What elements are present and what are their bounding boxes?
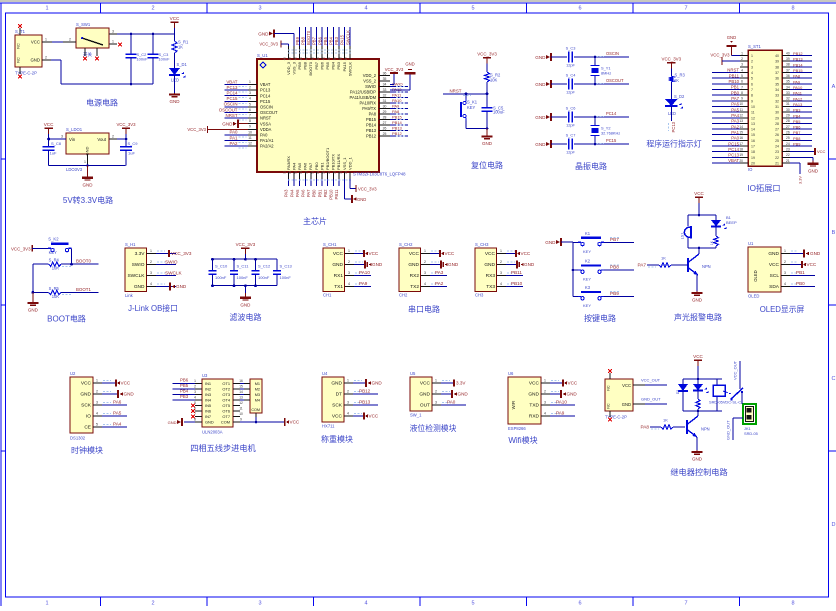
svg-text:SCL: SCL bbox=[770, 273, 780, 279]
svg-text:15: 15 bbox=[294, 170, 298, 174]
svg-text:3: 3 bbox=[249, 91, 251, 95]
svg-text:PA12/USB/DP: PA12/USB/DP bbox=[350, 90, 376, 95]
svg-text:1: 1 bbox=[84, 160, 86, 164]
svg-text:32: 32 bbox=[383, 93, 387, 97]
svg-text:S_CH2: S_CH2 bbox=[399, 242, 413, 247]
svg-text:S_LDO1: S_LDO1 bbox=[66, 127, 83, 132]
svg-text:27: 27 bbox=[786, 125, 790, 129]
svg-text:15: 15 bbox=[739, 131, 743, 135]
svg-text:程序运行指示灯: 程序运行指示灯 bbox=[646, 139, 701, 149]
svg-text:COM: COM bbox=[221, 420, 230, 425]
svg-text:PB6: PB6 bbox=[319, 61, 324, 69]
svg-text:S_C4: S_C4 bbox=[566, 73, 577, 78]
svg-text:2: 2 bbox=[435, 390, 437, 394]
svg-text:GND: GND bbox=[692, 298, 703, 303]
svg-text:33: 33 bbox=[786, 91, 790, 95]
svg-text:PB11/RX: PB11/RX bbox=[336, 154, 341, 170]
svg-text:BOOT0: BOOT0 bbox=[308, 61, 313, 75]
svg-text:PB4: PB4 bbox=[793, 113, 801, 118]
svg-text:PC15: PC15 bbox=[606, 138, 617, 143]
svg-text:3: 3 bbox=[741, 63, 743, 67]
svg-text:VCC_3V3: VCC_3V3 bbox=[171, 251, 192, 256]
svg-text:3: 3 bbox=[258, 601, 261, 607]
svg-text:PA0: PA0 bbox=[230, 130, 239, 135]
svg-text:36: 36 bbox=[775, 77, 779, 81]
svg-text:OSCOUT: OSCOUT bbox=[219, 107, 238, 112]
svg-text:PA6: PA6 bbox=[113, 400, 122, 405]
svg-text:PA13: PA13 bbox=[793, 102, 802, 107]
svg-text:PA6: PA6 bbox=[303, 162, 308, 170]
svg-text:PC14: PC14 bbox=[227, 91, 239, 96]
svg-text:PB10/TX: PB10/TX bbox=[331, 154, 336, 170]
svg-text:VCC: VCC bbox=[529, 381, 540, 387]
svg-text:PA11: PA11 bbox=[392, 93, 402, 98]
svg-text:GND: GND bbox=[768, 251, 779, 257]
svg-text:100nF: 100nF bbox=[258, 275, 270, 280]
svg-text:GND: GND bbox=[622, 402, 631, 407]
svg-text:GND: GND bbox=[205, 420, 214, 425]
svg-text:PB6: PB6 bbox=[180, 378, 189, 383]
svg-text:PA0: PA0 bbox=[731, 136, 739, 141]
svg-text:VCC_3V3: VCC_3V3 bbox=[187, 127, 206, 132]
svg-text:2: 2 bbox=[347, 390, 349, 394]
svg-text:OSCOUT: OSCOUT bbox=[606, 78, 624, 83]
svg-text:PA4: PA4 bbox=[113, 422, 122, 427]
svg-text:S_C6: S_C6 bbox=[566, 106, 576, 111]
svg-text:PA10: PA10 bbox=[793, 85, 803, 90]
svg-text:17: 17 bbox=[751, 145, 755, 149]
svg-text:U4: U4 bbox=[322, 371, 328, 376]
svg-text:GND: GND bbox=[484, 262, 495, 268]
svg-text:37: 37 bbox=[786, 68, 790, 72]
svg-text:8: 8 bbox=[194, 418, 196, 422]
svg-text:ESP8266: ESP8266 bbox=[508, 426, 526, 431]
svg-text:GND: GND bbox=[134, 284, 145, 290]
svg-text:S_C13: S_C13 bbox=[280, 263, 293, 268]
svg-text:PA8: PA8 bbox=[392, 109, 400, 114]
svg-text:8: 8 bbox=[791, 6, 794, 12]
svg-text:26: 26 bbox=[786, 131, 790, 135]
svg-text:GND: GND bbox=[405, 62, 414, 67]
svg-text:OLED: OLED bbox=[748, 294, 759, 299]
svg-text:VSS_1: VSS_1 bbox=[342, 157, 347, 170]
svg-text:48: 48 bbox=[282, 57, 286, 61]
svg-text:NRST: NRST bbox=[727, 68, 739, 73]
svg-text:30: 30 bbox=[383, 104, 387, 108]
svg-text:PB3: PB3 bbox=[793, 108, 800, 113]
svg-text:PC15: PC15 bbox=[260, 99, 271, 104]
svg-text:2: 2 bbox=[69, 37, 71, 41]
svg-text:PA4: PA4 bbox=[731, 113, 739, 118]
svg-text:KEY: KEY bbox=[49, 250, 57, 255]
svg-text:IN7: IN7 bbox=[205, 414, 211, 419]
svg-text:VSSA: VSSA bbox=[260, 121, 271, 126]
svg-text:LED: LED bbox=[171, 78, 179, 83]
svg-text:PA2/A2: PA2/A2 bbox=[260, 144, 274, 149]
svg-text:20: 20 bbox=[322, 170, 326, 174]
svg-text:GND: GND bbox=[170, 99, 181, 104]
svg-text:PA11: PA11 bbox=[793, 91, 802, 96]
svg-text:PB5: PB5 bbox=[180, 383, 189, 388]
svg-text:25: 25 bbox=[786, 136, 790, 140]
svg-text:100nF: 100nF bbox=[159, 57, 171, 62]
svg-text:3: 3 bbox=[61, 134, 63, 138]
svg-text:4: 4 bbox=[348, 282, 350, 286]
svg-text:43: 43 bbox=[310, 57, 314, 61]
svg-text:PB14: PB14 bbox=[366, 123, 377, 128]
svg-text:S_C8: S_C8 bbox=[51, 141, 62, 146]
svg-text:PB5: PB5 bbox=[323, 36, 328, 45]
svg-text:16: 16 bbox=[739, 136, 743, 140]
svg-text:4: 4 bbox=[347, 412, 349, 416]
svg-text:VCC_OUT: VCC_OUT bbox=[733, 360, 738, 380]
svg-text:4: 4 bbox=[364, 601, 367, 607]
svg-text:VCC_3V3: VCC_3V3 bbox=[662, 57, 682, 62]
svg-text:12pF: 12pF bbox=[566, 63, 575, 68]
svg-text:继电器控制电路: 继电器控制电路 bbox=[670, 467, 727, 477]
svg-text:10K: 10K bbox=[52, 266, 60, 271]
svg-text:100nF: 100nF bbox=[137, 57, 149, 62]
svg-text:3: 3 bbox=[435, 401, 437, 405]
svg-text:KEY: KEY bbox=[467, 105, 475, 110]
svg-text:100nF: 100nF bbox=[237, 275, 249, 280]
svg-text:16: 16 bbox=[299, 170, 303, 174]
svg-text:24: 24 bbox=[786, 142, 790, 146]
svg-text:5: 5 bbox=[751, 77, 753, 81]
svg-text:PB7: PB7 bbox=[314, 61, 319, 69]
svg-text:VCC: VCC bbox=[521, 251, 531, 256]
svg-text:PB0: PB0 bbox=[314, 162, 319, 170]
svg-text:GND: GND bbox=[419, 392, 430, 398]
svg-text:28: 28 bbox=[383, 115, 387, 119]
svg-text:PB1: PB1 bbox=[317, 189, 322, 198]
svg-text:5: 5 bbox=[249, 102, 251, 106]
svg-text:100nF: 100nF bbox=[215, 275, 227, 280]
svg-text:时钟模块: 时钟模块 bbox=[71, 445, 103, 455]
svg-text:GND_OUT: GND_OUT bbox=[641, 397, 661, 402]
svg-text:C: C bbox=[832, 376, 836, 382]
svg-text:LED: LED bbox=[668, 111, 676, 116]
svg-text:28: 28 bbox=[775, 122, 779, 126]
svg-text:32: 32 bbox=[786, 97, 790, 101]
svg-text:1: 1 bbox=[249, 80, 251, 84]
svg-text:5: 5 bbox=[741, 74, 743, 78]
svg-text:VCC: VCC bbox=[568, 381, 578, 386]
svg-text:PC13: PC13 bbox=[260, 88, 271, 93]
svg-text:PA15: PA15 bbox=[340, 34, 345, 45]
svg-text:42: 42 bbox=[316, 57, 320, 61]
svg-text:25: 25 bbox=[383, 132, 387, 136]
svg-text:NRST: NRST bbox=[450, 88, 462, 93]
svg-text:Wifi模块: Wifi模块 bbox=[508, 435, 537, 445]
svg-text:B: B bbox=[832, 230, 836, 236]
svg-text:5: 5 bbox=[471, 6, 474, 12]
svg-text:32: 32 bbox=[775, 99, 779, 103]
svg-text:PB13: PB13 bbox=[366, 128, 377, 133]
svg-text:PB1: PB1 bbox=[731, 85, 740, 90]
svg-text:PA9: PA9 bbox=[793, 79, 800, 84]
svg-text:31: 31 bbox=[775, 105, 779, 109]
svg-text:M2: M2 bbox=[255, 388, 260, 392]
svg-text:11: 11 bbox=[248, 136, 252, 140]
svg-text:10: 10 bbox=[248, 130, 252, 134]
svg-text:S_CH1: S_CH1 bbox=[323, 242, 337, 247]
svg-text:TX1: TX1 bbox=[334, 284, 343, 290]
svg-text:S_R3: S_R3 bbox=[675, 72, 686, 77]
svg-text:21: 21 bbox=[786, 159, 790, 163]
svg-text:PA0: PA0 bbox=[447, 400, 456, 405]
svg-text:PA0: PA0 bbox=[260, 133, 268, 138]
svg-text:NRST: NRST bbox=[226, 113, 238, 118]
svg-text:40: 40 bbox=[327, 57, 331, 61]
svg-text:PA6: PA6 bbox=[731, 102, 739, 107]
svg-text:2: 2 bbox=[784, 260, 786, 264]
svg-text:23: 23 bbox=[786, 148, 790, 152]
svg-text:GND: GND bbox=[448, 262, 459, 267]
svg-text:ULN2003A: ULN2003A bbox=[202, 430, 223, 435]
svg-text:PB0: PB0 bbox=[312, 189, 317, 198]
svg-text:5V转3.3V电路: 5V转3.3V电路 bbox=[63, 195, 113, 205]
svg-text:3: 3 bbox=[751, 65, 753, 69]
svg-text:4: 4 bbox=[741, 68, 743, 72]
svg-text:40: 40 bbox=[775, 54, 779, 58]
svg-text:1K: 1K bbox=[661, 256, 666, 261]
svg-text:1uF: 1uF bbox=[128, 151, 135, 156]
svg-text:21: 21 bbox=[327, 170, 331, 174]
svg-text:14: 14 bbox=[239, 390, 243, 394]
svg-text:14: 14 bbox=[739, 125, 743, 129]
svg-text:KEY: KEY bbox=[583, 303, 591, 308]
svg-text:PA7: PA7 bbox=[306, 189, 311, 197]
svg-text:3: 3 bbox=[544, 401, 546, 405]
svg-text:2: 2 bbox=[45, 55, 47, 59]
svg-text:GND: GND bbox=[567, 392, 578, 397]
svg-text:19: 19 bbox=[751, 156, 755, 160]
svg-text:OLED显示屏: OLED显示屏 bbox=[760, 305, 805, 314]
svg-text:3.3V: 3.3V bbox=[456, 381, 466, 386]
svg-text:S_C9: S_C9 bbox=[128, 141, 139, 146]
svg-text:U3: U3 bbox=[202, 373, 208, 378]
svg-text:PB7: PB7 bbox=[312, 36, 317, 45]
svg-text:PB8: PB8 bbox=[301, 36, 306, 45]
svg-text:S_C7: S_C7 bbox=[566, 133, 576, 138]
svg-text:1K: 1K bbox=[178, 45, 183, 50]
svg-text:PB13: PB13 bbox=[793, 57, 803, 62]
svg-text:Vout: Vout bbox=[97, 137, 106, 142]
svg-text:GND: GND bbox=[524, 262, 535, 267]
svg-text:PB2: PB2 bbox=[323, 189, 328, 198]
svg-text:VCC_3V3: VCC_3V3 bbox=[710, 53, 730, 58]
svg-text:33: 33 bbox=[775, 94, 779, 98]
svg-text:SCK: SCK bbox=[332, 403, 343, 409]
svg-text:SRD-05VDC-SL-C: SRD-05VDC-SL-C bbox=[709, 400, 741, 405]
svg-text:8MHz: 8MHz bbox=[601, 71, 611, 76]
svg-text:10: 10 bbox=[239, 412, 243, 416]
svg-text:VCC: VCC bbox=[332, 414, 343, 420]
svg-text:6: 6 bbox=[249, 108, 251, 112]
svg-text:VCC: VCC bbox=[333, 251, 344, 257]
svg-text:PA2: PA2 bbox=[435, 281, 444, 286]
svg-text:VCC: VCC bbox=[170, 16, 180, 21]
svg-text:PB9: PB9 bbox=[793, 142, 800, 147]
svg-text:BOOT1: BOOT1 bbox=[76, 287, 91, 292]
svg-text:VCC_3V3: VCC_3V3 bbox=[385, 67, 404, 72]
svg-text:5: 5 bbox=[96, 423, 98, 427]
svg-text:S_K1: S_K1 bbox=[467, 100, 478, 105]
svg-text:37: 37 bbox=[775, 71, 779, 75]
svg-text:19: 19 bbox=[739, 153, 743, 157]
svg-text:S_D2: S_D2 bbox=[674, 94, 685, 99]
svg-text:SWIO: SWIO bbox=[365, 84, 376, 89]
svg-text:18: 18 bbox=[310, 170, 314, 174]
svg-text:PB13: PB13 bbox=[392, 126, 403, 131]
svg-text:PB0: PB0 bbox=[731, 90, 740, 95]
svg-text:4: 4 bbox=[500, 282, 502, 286]
svg-text:3: 3 bbox=[112, 29, 114, 33]
svg-text:38: 38 bbox=[775, 65, 779, 69]
svg-text:10K: 10K bbox=[490, 78, 498, 83]
svg-text:PA5: PA5 bbox=[731, 107, 739, 112]
svg-text:KEY: KEY bbox=[583, 277, 591, 282]
svg-text:OT6: OT6 bbox=[222, 409, 230, 414]
svg-text:VCC: VCC bbox=[31, 40, 40, 45]
svg-text:10: 10 bbox=[751, 105, 755, 109]
svg-text:NPN: NPN bbox=[701, 427, 710, 432]
svg-text:PA4: PA4 bbox=[289, 189, 294, 197]
svg-text:2: 2 bbox=[151, 6, 154, 12]
svg-text:PA6: PA6 bbox=[301, 189, 306, 197]
svg-text:46: 46 bbox=[294, 57, 298, 61]
svg-text:GND: GND bbox=[168, 420, 177, 425]
svg-text:31: 31 bbox=[786, 102, 790, 106]
svg-text:PB4: PB4 bbox=[180, 389, 189, 394]
svg-text:1: 1 bbox=[194, 379, 196, 383]
svg-text:GND: GND bbox=[357, 197, 366, 202]
svg-text:PB11: PB11 bbox=[729, 73, 740, 78]
svg-text:VCC_3V3: VCC_3V3 bbox=[11, 246, 31, 251]
svg-text:2: 2 bbox=[741, 57, 743, 61]
svg-text:STM32F103C8T6_LQFP48: STM32F103C8T6_LQFP48 bbox=[353, 172, 406, 177]
svg-text:VDD_2: VDD_2 bbox=[363, 73, 377, 78]
svg-text:GND: GND bbox=[28, 308, 39, 313]
svg-text:12: 12 bbox=[248, 142, 252, 146]
svg-text:PB12: PB12 bbox=[392, 131, 403, 136]
svg-text:13: 13 bbox=[739, 119, 743, 123]
svg-text:7: 7 bbox=[751, 88, 753, 92]
svg-text:2: 2 bbox=[249, 86, 251, 90]
svg-text:3: 3 bbox=[424, 271, 426, 275]
svg-text:4: 4 bbox=[364, 6, 367, 12]
svg-text:20: 20 bbox=[739, 159, 743, 163]
svg-text:TX2: TX2 bbox=[410, 284, 419, 290]
svg-text:PA3: PA3 bbox=[731, 119, 739, 124]
svg-text:VCC: VCC bbox=[369, 414, 379, 419]
svg-text:1: 1 bbox=[348, 249, 350, 253]
svg-text:SRD-05: SRD-05 bbox=[744, 431, 758, 436]
svg-text:2: 2 bbox=[500, 260, 502, 264]
svg-text:2: 2 bbox=[424, 260, 426, 264]
svg-text:5: 5 bbox=[471, 601, 474, 607]
svg-text:4: 4 bbox=[751, 71, 753, 75]
svg-text:9: 9 bbox=[249, 125, 251, 129]
svg-text:GND: GND bbox=[222, 122, 233, 127]
svg-text:IN5: IN5 bbox=[205, 403, 211, 408]
svg-text:VCC: VCC bbox=[420, 381, 431, 387]
svg-text:19: 19 bbox=[316, 170, 320, 174]
svg-text:PA10: PA10 bbox=[359, 270, 370, 275]
svg-text:S_C10: S_C10 bbox=[215, 263, 228, 268]
svg-text:29: 29 bbox=[383, 110, 387, 114]
svg-text:串口电路: 串口电路 bbox=[408, 304, 440, 314]
svg-text:PB9: PB9 bbox=[295, 36, 300, 45]
svg-text:VBAT: VBAT bbox=[260, 82, 271, 87]
svg-text:OT1: OT1 bbox=[222, 381, 230, 386]
svg-text:BOOT0: BOOT0 bbox=[306, 30, 311, 45]
svg-text:11: 11 bbox=[751, 111, 755, 115]
svg-text:OSCIN: OSCIN bbox=[606, 51, 619, 56]
svg-text:CH2: CH2 bbox=[399, 293, 408, 298]
svg-text:GND: GND bbox=[535, 142, 546, 147]
svg-text:45: 45 bbox=[299, 57, 303, 61]
svg-text:S_R4: S_R4 bbox=[49, 258, 60, 263]
svg-text:38: 38 bbox=[338, 57, 342, 61]
svg-text:S_R5: S_R5 bbox=[49, 286, 60, 291]
svg-text:PA10: PA10 bbox=[556, 400, 567, 405]
svg-text:OSCOUT: OSCOUT bbox=[260, 110, 278, 115]
svg-text:OT2: OT2 bbox=[222, 387, 230, 392]
svg-text:PC14: PC14 bbox=[606, 111, 617, 116]
svg-text:晶振电路: 晶振电路 bbox=[575, 161, 607, 171]
svg-text:SW_1: SW_1 bbox=[410, 413, 422, 418]
svg-text:34: 34 bbox=[775, 88, 779, 92]
svg-text:TYPE-C-2P: TYPE-C-2P bbox=[605, 415, 627, 420]
svg-text:NC: NC bbox=[607, 385, 611, 391]
svg-text:GND: GND bbox=[482, 141, 493, 146]
svg-text:10: 10 bbox=[739, 102, 743, 106]
svg-text:PA9: PA9 bbox=[359, 281, 368, 286]
svg-text:7: 7 bbox=[249, 114, 251, 118]
svg-text:PB10: PB10 bbox=[329, 189, 334, 200]
svg-text:VCC: VCC bbox=[445, 251, 455, 256]
svg-text:VCC: VCC bbox=[817, 149, 826, 154]
svg-text:VCC: VCC bbox=[44, 122, 54, 127]
svg-text:PA2: PA2 bbox=[731, 124, 739, 129]
svg-text:GND: GND bbox=[535, 82, 546, 87]
svg-text:34: 34 bbox=[383, 82, 387, 86]
svg-text:PB13: PB13 bbox=[359, 400, 371, 405]
svg-text:31: 31 bbox=[383, 99, 387, 103]
svg-text:PB5: PB5 bbox=[325, 61, 330, 69]
svg-text:VCC_3V3: VCC_3V3 bbox=[236, 242, 256, 247]
svg-text:PC14: PC14 bbox=[260, 93, 271, 98]
svg-text:PB8: PB8 bbox=[793, 136, 800, 141]
svg-text:PA1/A1: PA1/A1 bbox=[260, 138, 274, 143]
svg-text:OUT: OUT bbox=[420, 403, 430, 409]
svg-text:PA9: PA9 bbox=[392, 104, 400, 109]
svg-text:PA2: PA2 bbox=[230, 141, 239, 146]
svg-text:1: 1 bbox=[544, 379, 546, 383]
svg-text:SDA: SDA bbox=[769, 284, 780, 290]
svg-text:7: 7 bbox=[741, 85, 743, 89]
svg-text:NC: NC bbox=[17, 43, 21, 49]
svg-text:13: 13 bbox=[282, 170, 286, 174]
svg-text:4: 4 bbox=[784, 282, 786, 286]
svg-text:GND: GND bbox=[528, 392, 539, 398]
svg-text:4: 4 bbox=[194, 396, 196, 400]
svg-text:2: 2 bbox=[544, 390, 546, 394]
svg-text:HX711: HX711 bbox=[322, 424, 335, 429]
svg-text:4: 4 bbox=[544, 412, 546, 416]
